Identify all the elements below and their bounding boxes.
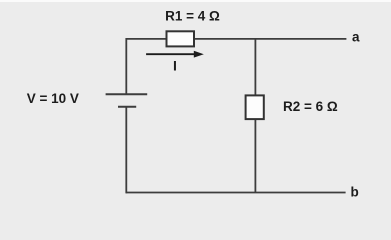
resistor R1 bbox=[167, 31, 195, 46]
resistor R2 bbox=[246, 95, 264, 119]
wire: right vertical segment from top junction to R2 bbox=[254, 39, 256, 96]
wire: right vertical segment from R2 to bottom wire bbox=[254, 119, 256, 193]
battery / voltage source V bbox=[106, 94, 148, 107]
wire: left vertical segment from top corner to battery + plate bbox=[125, 38, 127, 94]
wire: top-right horizontal segment from R1 to terminal a bbox=[194, 38, 347, 40]
svg-text:R1 = 4 Ω: R1 = 4 Ω bbox=[165, 8, 220, 23]
svg-text:V = 10 V: V = 10 V bbox=[27, 91, 79, 106]
current arrow I bbox=[146, 51, 204, 58]
svg-text:b: b bbox=[350, 185, 358, 200]
svg-text:R2 = 6 Ω: R2 = 6 Ω bbox=[283, 99, 338, 114]
svg-text:I: I bbox=[173, 58, 177, 74]
wire: left vertical segment from battery - plate to bottom corner bbox=[125, 107, 127, 194]
svg-text:a: a bbox=[352, 29, 360, 44]
wire: top-left horizontal segment from left corner to R1 bbox=[126, 38, 167, 40]
wire: bottom horizontal segment from left corner to terminal b bbox=[126, 192, 345, 194]
